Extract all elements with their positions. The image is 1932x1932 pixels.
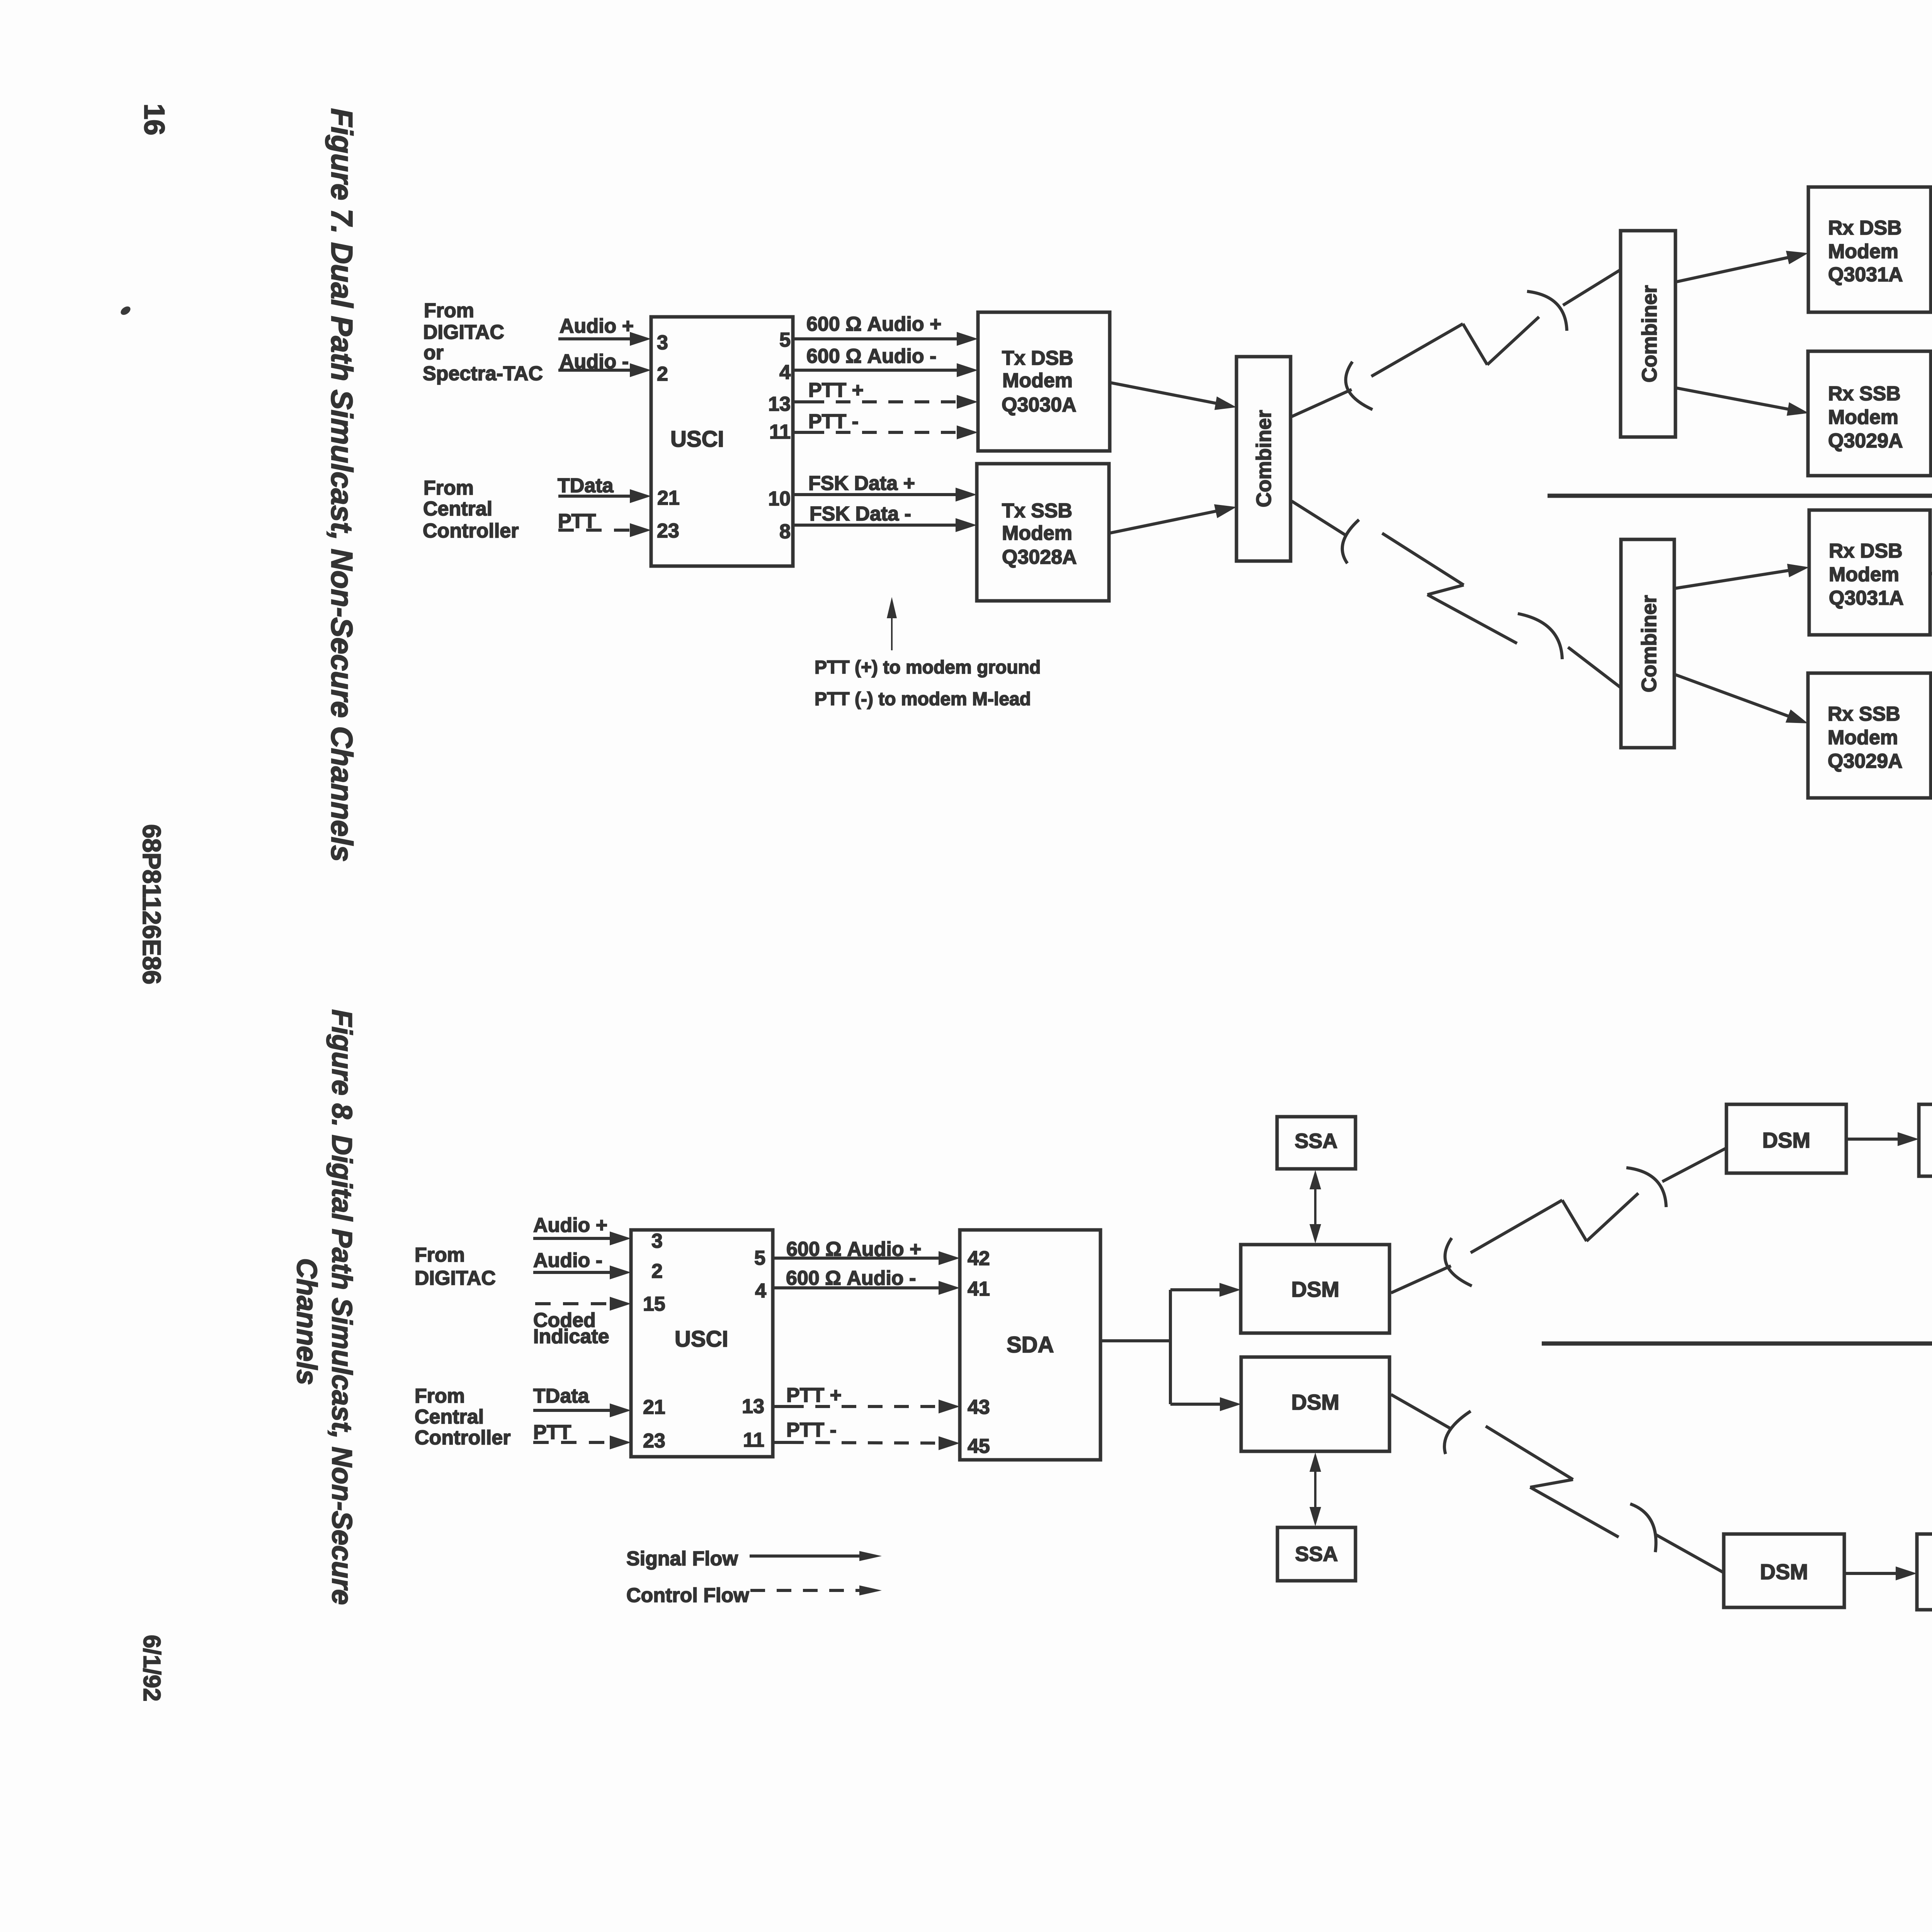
svg-text:Channels: Channels — [291, 1258, 322, 1385]
svg-text:Controller: Controller — [415, 1427, 510, 1449]
svg-text:or: or — [423, 342, 444, 364]
svg-text:2: 2 — [657, 363, 668, 385]
svg-text:FSK Data +: FSK Data + — [808, 472, 915, 495]
block SDA (fig8) — [960, 1230, 1100, 1460]
svg-text:PTT +: PTT + — [808, 379, 864, 401]
svg-text:Signal Flow: Signal Flow — [626, 1548, 738, 1570]
svg-text:TData: TData — [558, 474, 614, 497]
wire RxSSB to RDM (site2) — [1930, 670, 1932, 726]
wire TxDSB to Combiner (fig7) — [1110, 383, 1218, 404]
svg-text:21: 21 — [643, 1396, 665, 1418]
block USCI (fig7) — [651, 317, 793, 566]
svg-text:Controller: Controller — [423, 520, 519, 542]
svg-text:16: 16 — [138, 104, 170, 135]
svg-text:41: 41 — [968, 1278, 990, 1300]
ink blob speck — [119, 305, 132, 317]
wire Audio+ into pin 3 (fig7) — [558, 337, 632, 340]
svg-text:Central: Central — [423, 498, 492, 520]
wire PTT+ dashed to SDA pin43 (fig8) — [773, 1405, 789, 1408]
svg-text:42: 42 — [968, 1247, 990, 1270]
svg-text:Q3028A: Q3028A — [1002, 546, 1077, 568]
svg-text:Q3029A: Q3029A — [1828, 430, 1903, 452]
svg-text:Q3031A: Q3031A — [1829, 587, 1904, 609]
radio link arc 1 (fig7 lower) — [1342, 520, 1359, 563]
radio link to Site 2 (fig8): segments and lightning zigzag — [1391, 1395, 1451, 1429]
svg-text:PTT -: PTT - — [786, 1419, 837, 1441]
wire DSM to Tx (fig8 site1) — [1846, 1138, 1900, 1141]
wire 600ohm Audio- to SDA pin41 (fig8) — [773, 1286, 941, 1289]
svg-text:13: 13 — [742, 1395, 764, 1418]
radio link arc 1 (fig7 upper) — [1346, 362, 1372, 410]
wire PTT+ dashed USCI pin13 to TxDSB (fig7) — [793, 400, 810, 403]
svg-text:3: 3 — [651, 1230, 663, 1252]
divider line between sites (fig8) — [1542, 1342, 1932, 1346]
radio link arc 2 (fig8 site1) — [1626, 1168, 1666, 1207]
radio link to Site 1 (fig7): line segments and lightning zigzag — [1292, 389, 1352, 417]
svg-text:13: 13 — [768, 393, 791, 415]
wire Audio- into pin 2 (fig7) — [558, 369, 632, 372]
radio link arc 2 (fig7 lower) — [1518, 614, 1562, 659]
svg-text:Modem: Modem — [1829, 563, 1899, 586]
radio link to Site 2 (fig7): line segments and lightning zigzag — [1292, 501, 1346, 536]
svg-text:4: 4 — [755, 1280, 766, 1302]
svg-text:43: 43 — [968, 1396, 990, 1418]
legend signal flow solid arrow — [750, 1554, 862, 1558]
block Tx SSB Modem Q3028A — [977, 464, 1109, 601]
wire PTT dashed into pin 23 (fig7) — [558, 529, 632, 532]
svg-text:11: 11 — [743, 1429, 764, 1451]
svg-text:Q3030A: Q3030A — [1002, 394, 1077, 416]
wire FSK Data+ USCI pin10 to TxSSB (fig7) — [793, 493, 958, 496]
svg-text:Control Flow: Control Flow — [626, 1584, 749, 1607]
block Tx (fig8 site2) — [1917, 1534, 1932, 1610]
svg-text:PTT +: PTT + — [786, 1384, 842, 1406]
svg-text:DIGITAC: DIGITAC — [415, 1267, 496, 1289]
block Combiner (fig7 prime) — [1236, 357, 1291, 561]
wire fork vertical (fig8) — [1169, 1290, 1172, 1404]
svg-text:Spectra-TAC: Spectra-TAC — [423, 362, 543, 385]
svg-text:From: From — [423, 477, 474, 499]
wire PTT dashed into pin 23 (fig8) — [533, 1441, 612, 1444]
svg-text:PTT: PTT — [533, 1421, 571, 1444]
wire RxDSB to RDM (site1) — [1931, 253, 1932, 303]
svg-text:21: 21 — [657, 487, 680, 509]
block SSA (fig8 lower) — [1277, 1527, 1355, 1581]
svg-text:45: 45 — [968, 1435, 990, 1458]
svg-text:Rx SSB: Rx SSB — [1828, 703, 1900, 725]
wire RxSSB to RDM (site1) — [1931, 367, 1932, 420]
radio link to Site 1 (fig8): segments and lightning zigzag — [1391, 1266, 1451, 1293]
svg-text:600 Ω Audio +: 600 Ω Audio + — [806, 313, 941, 335]
block Rx SSB Modem Q3029A (site1) — [1808, 351, 1931, 476]
svg-text:PTT (-) to modem M-lead: PTT (-) to modem M-lead — [815, 689, 1031, 709]
svg-text:Modem: Modem — [1002, 369, 1073, 392]
svg-text:From: From — [424, 299, 474, 322]
svg-text:Modem: Modem — [1002, 522, 1072, 544]
wire PTT- dashed to SDA pin45 (fig8) — [773, 1441, 789, 1444]
svg-text:6/1/92: 6/1/92 — [138, 1635, 165, 1701]
block Rx DSB Modem Q3031A (site1) — [1808, 187, 1931, 312]
svg-text:From: From — [415, 1385, 465, 1407]
block DSM (fig8 prime site1) — [1241, 1245, 1389, 1333]
svg-text:Combiner: Combiner — [1638, 285, 1661, 383]
svg-text:SSA: SSA — [1294, 1129, 1337, 1153]
svg-text:Tx DSB: Tx DSB — [1002, 347, 1073, 369]
block Tx DSB Modem Q3030A — [978, 312, 1110, 451]
radio link arc 2 (fig7 upper) — [1527, 291, 1567, 331]
block Tx (fig8 site1) — [1919, 1104, 1932, 1176]
svg-text:Rx SSB: Rx SSB — [1828, 383, 1901, 405]
svg-text:Audio +: Audio + — [533, 1214, 607, 1236]
svg-text:23: 23 — [657, 520, 679, 542]
double arrow DSM-SSA (fig8 lower) — [1314, 1458, 1316, 1520]
wire fork lower branch into DSM2 (fig8) — [1170, 1403, 1222, 1406]
svg-text:SSA: SSA — [1295, 1543, 1338, 1566]
wire Audio+ into pin 3 (fig8) — [533, 1237, 612, 1240]
radio link arc 2 (fig8 site2) — [1630, 1504, 1656, 1552]
svg-text:Audio -: Audio - — [533, 1249, 602, 1272]
svg-text:Central: Central — [415, 1406, 484, 1428]
svg-text:Indicate: Indicate — [533, 1325, 609, 1348]
svg-text:600 Ω Audio -: 600 Ω Audio - — [806, 345, 936, 367]
block Combiner (fig7 site1) — [1621, 231, 1675, 437]
svg-text:15: 15 — [643, 1293, 665, 1315]
svg-text:Combiner: Combiner — [1638, 595, 1661, 692]
block Rx SSB Modem Q3029A (site2) — [1808, 673, 1931, 798]
svg-text:USCI: USCI — [670, 427, 724, 452]
svg-text:DSM: DSM — [1760, 1560, 1808, 1584]
block SSA (fig8 upper) — [1277, 1117, 1355, 1169]
wire Combiner to RxSSB (site1) — [1676, 388, 1790, 410]
svg-text:Combiner: Combiner — [1252, 410, 1276, 507]
note arrow (thin, pointing up at TxSSB) — [891, 603, 893, 650]
svg-text:DSM: DSM — [1762, 1128, 1810, 1152]
wire TxSSB to Combiner (fig7) — [1109, 511, 1218, 533]
double arrow SSA-DSM (fig8 upper) — [1314, 1176, 1316, 1238]
wire DSM to Tx (fig8 site2) — [1844, 1572, 1898, 1575]
wire Audio- into pin 2 (fig8) — [533, 1271, 612, 1274]
svg-text:8: 8 — [779, 520, 791, 543]
wire fork upper branch into DSM1 (fig8) — [1170, 1288, 1222, 1291]
svg-text:Q3031A: Q3031A — [1828, 264, 1903, 286]
svg-text:DIGITAC: DIGITAC — [423, 321, 504, 344]
wire Combiner to RxDSB (site1) — [1677, 257, 1790, 282]
block Combiner (fig7 site2) — [1621, 539, 1674, 748]
radio link arc 1 (fig8 site1) — [1445, 1238, 1472, 1286]
svg-text:68P81126E86: 68P81126E86 — [138, 824, 166, 985]
svg-text:Modem: Modem — [1828, 726, 1898, 749]
wire SDA output to fork (fig8) — [1100, 1339, 1170, 1342]
svg-text:Rx DSB: Rx DSB — [1828, 217, 1902, 239]
svg-text:PTT -: PTT - — [808, 410, 859, 433]
svg-text:Modem: Modem — [1828, 406, 1898, 429]
svg-text:Tx SSB: Tx SSB — [1002, 500, 1072, 522]
wire 600 ohm Audio+ USCI pin5 to TxDSB (fig7) — [793, 337, 959, 340]
block DSM (fig8 site2) — [1724, 1534, 1844, 1607]
wire PTT- dashed USCI pin11 to TxDSB (fig7) — [793, 431, 810, 434]
svg-text:3: 3 — [657, 332, 668, 354]
block DSM (fig8 prime site2) — [1241, 1357, 1389, 1451]
svg-text:4: 4 — [779, 361, 791, 384]
svg-text:Figure 8. Digital Path Simulc: Figure 8. Digital Path Simulcast, Non-Se… — [326, 1009, 357, 1605]
svg-text:FSK Data -: FSK Data - — [810, 503, 911, 525]
wire Combiner to RxSSB (site2) — [1674, 674, 1790, 717]
divider line between Site 1 and Site 2 (fig7) — [1548, 494, 1932, 498]
block USCI (fig8) — [631, 1230, 773, 1457]
svg-text:Modem: Modem — [1828, 240, 1898, 263]
block Rx DSB Modem Q3031A (site2) — [1809, 510, 1930, 635]
svg-text:5: 5 — [754, 1247, 765, 1269]
svg-text:5: 5 — [779, 329, 791, 351]
svg-text:USCI: USCI — [675, 1327, 728, 1352]
svg-text:DSM: DSM — [1291, 1390, 1339, 1414]
wire RxDSB to RDM (site2) — [1930, 573, 1932, 626]
wire TData into pin 21 (fig8) — [533, 1409, 612, 1412]
wire 600ohm Audio+ to SDA pin42 (fig8) — [773, 1257, 941, 1260]
svg-text:10: 10 — [768, 488, 791, 510]
svg-text:TData: TData — [533, 1385, 590, 1407]
wire TData into pin 21 (fig7) — [558, 495, 632, 498]
svg-text:Figure 7. Dual Path Simulcast: Figure 7. Dual Path Simulcast, Non-Secur… — [325, 108, 359, 862]
svg-text:600 Ω Audio -: 600 Ω Audio - — [786, 1267, 916, 1289]
legend control flow dashed arrow — [750, 1589, 862, 1592]
wire 600 ohm Audio- USCI pin4 to TxDSB (fig7) — [793, 369, 959, 372]
svg-text:23: 23 — [643, 1430, 665, 1452]
svg-text:Rx DSB: Rx DSB — [1829, 540, 1903, 562]
wire Coded Indicate dashed into pin 15 (fig8) — [535, 1302, 612, 1305]
wire Combiner to RxDSB (site2) — [1674, 570, 1791, 588]
svg-text:Audio +: Audio + — [560, 315, 634, 337]
svg-text:DSM: DSM — [1291, 1277, 1339, 1301]
block DSM (fig8 site1) — [1726, 1104, 1846, 1173]
svg-text:From: From — [415, 1244, 465, 1266]
radio link arc 1 (fig8 site2) — [1444, 1411, 1471, 1454]
svg-text:SDA: SDA — [1007, 1332, 1054, 1357]
svg-text:PTT (+) to modem ground: PTT (+) to modem ground — [815, 657, 1041, 678]
wire FSK Data- USCI pin8 to TxSSB (fig7) — [793, 524, 958, 527]
svg-text:Q3029A: Q3029A — [1828, 750, 1903, 772]
svg-text:11: 11 — [769, 421, 791, 443]
svg-text:2: 2 — [651, 1260, 663, 1282]
